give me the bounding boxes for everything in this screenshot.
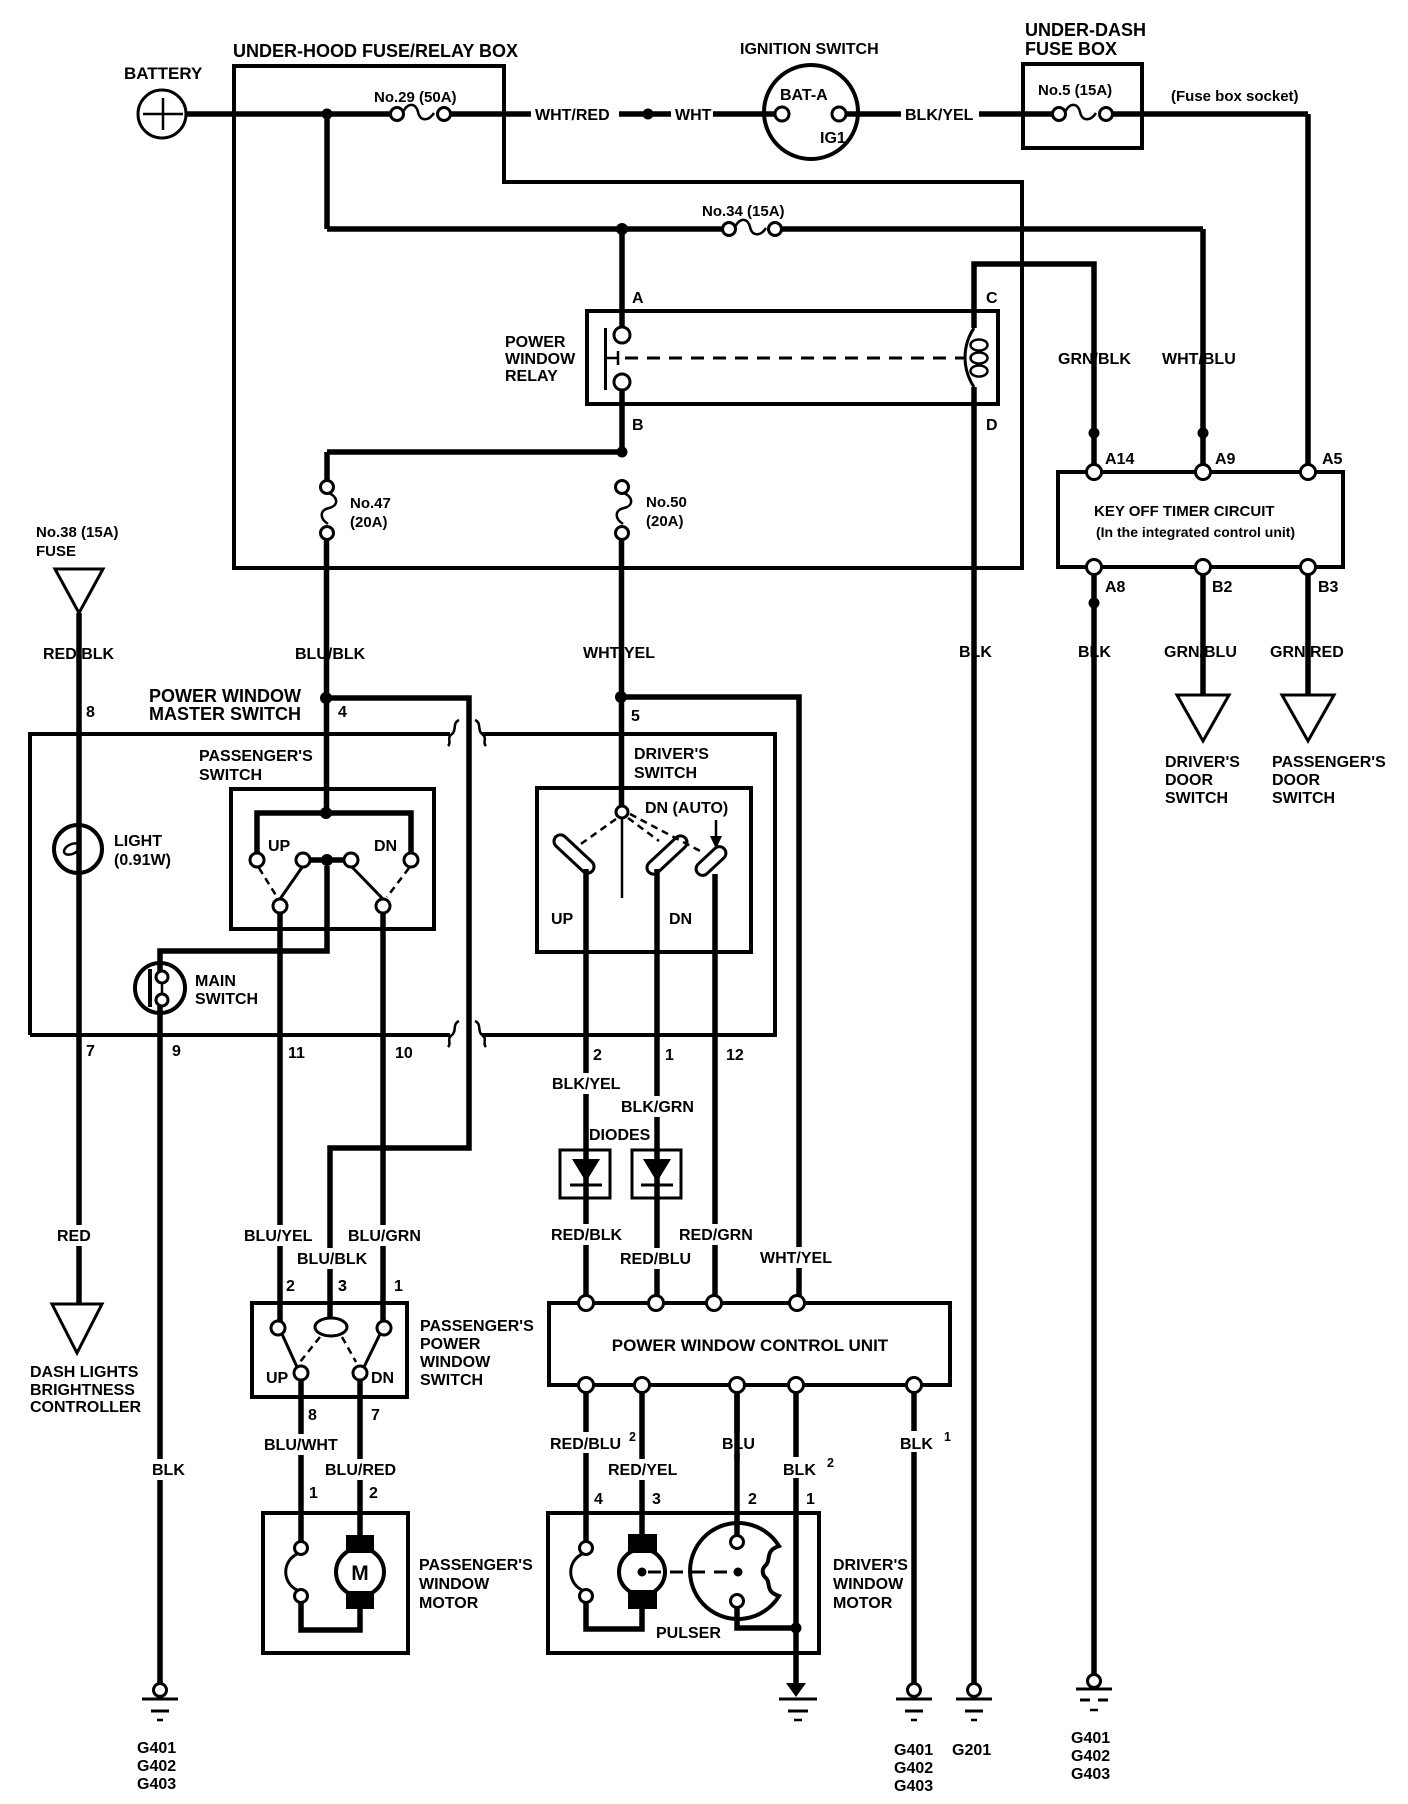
svg-text:RELAY: RELAY (505, 368, 558, 385)
svg-text:A14: A14 (1105, 451, 1134, 468)
junction relay A tap (616, 223, 628, 235)
wire WHT/YEL fuse No.50 to pin 5 and driver's switch (581, 540, 663, 807)
svg-text:IG1: IG1 (820, 130, 846, 147)
wire pin 7 BLU/RED to motor pin 2 (323, 1380, 399, 1535)
svg-text:No.29 (50A): No.29 (50A) (374, 89, 457, 106)
svg-text:B: B (632, 417, 644, 434)
svg-text:SWITCH: SWITCH (634, 765, 697, 782)
fuse No.38 (15A) (36, 524, 119, 613)
wire A8 BLK to ground (1076, 575, 1114, 1674)
svg-text:WINDOW: WINDOW (505, 351, 576, 368)
svg-text:DRIVER'S: DRIVER'S (634, 746, 709, 763)
ground driver's window motor (779, 1683, 817, 1720)
passenger's switch blades (259, 866, 409, 899)
wire pin 4 branch to passenger's power window switch pin 3 (295, 698, 469, 1318)
svg-text:DN: DN (371, 1370, 394, 1387)
wire pin 5 branch WHT/YEL to control unit (621, 697, 838, 1296)
motor-pulser shaft dashed (648, 1571, 733, 1574)
svg-text:WHT/YEL: WHT/YEL (760, 1250, 832, 1267)
wire BLU/BLK fuse No.47 to pin 4 and passenger's switch (293, 540, 366, 813)
svg-text:RED/BLU: RED/BLU (620, 1251, 691, 1268)
wire No.34 to WHT/BLU (781, 226, 1203, 232)
svg-text:DASH LIGHTS: DASH LIGHTS (30, 1364, 139, 1381)
passenger's switch center terminals (296, 853, 358, 867)
svg-text:SWITCH: SWITCH (1165, 790, 1228, 807)
svg-text:UP: UP (266, 1370, 289, 1387)
wire BLK 2 to pulser pin 1 (781, 1393, 834, 1683)
svg-text:DOOR: DOOR (1272, 772, 1320, 789)
passenger's switch DN terminal (374, 838, 418, 867)
svg-text:PASSENGER'S: PASSENGER'S (420, 1318, 534, 1335)
svg-text:1: 1 (394, 1278, 403, 1295)
svg-text:BLU/RED: BLU/RED (325, 1462, 396, 1479)
driver's window motor box (548, 1513, 908, 1653)
wire B3 GRN/RED (1268, 575, 1348, 695)
svg-text:MOTOR: MOTOR (833, 1595, 893, 1612)
wire pin 9 BLK to ground (150, 1006, 188, 1684)
power window control unit (549, 1296, 950, 1393)
passenger's motor return wire (301, 1603, 360, 1630)
svg-text:12: 12 (726, 1047, 744, 1064)
svg-text:DIODES: DIODES (589, 1127, 651, 1144)
svg-text:No.5 (15A): No.5 (15A) (1038, 82, 1112, 99)
svg-text:MOTOR: MOTOR (419, 1595, 479, 1612)
svg-text:11: 11 (288, 1045, 305, 1062)
svg-text:5: 5 (631, 708, 640, 725)
junction dot A8 (1089, 598, 1100, 609)
svg-text:D: D (986, 417, 998, 434)
power window master switch box (30, 686, 775, 1035)
break mark bottom-right (475, 1021, 486, 1047)
svg-text:BLU/BLK: BLU/BLK (295, 646, 366, 663)
passenger's power window switch box (252, 1303, 534, 1397)
svg-text:UP: UP (551, 911, 574, 928)
wire BLK/YEL (846, 107, 1053, 124)
svg-text:DRIVER'S: DRIVER'S (1165, 754, 1240, 771)
svg-text:UNDER-HOOD FUSE/RELAY BOX: UNDER-HOOD FUSE/RELAY BOX (233, 41, 518, 61)
passenger's switch contact bridge (257, 813, 411, 860)
svg-text:BLK: BLK (783, 1462, 816, 1479)
svg-text:No.38 (15A): No.38 (15A) (36, 524, 119, 541)
svg-text:POWER WINDOW: POWER WINDOW (149, 686, 301, 706)
svg-text:FUSE: FUSE (36, 543, 76, 560)
passenger's switch center bar (310, 857, 344, 863)
driver's switch box (537, 788, 751, 952)
junction pulser/BLK2 (791, 1623, 802, 1634)
svg-text:WHT/RED: WHT/RED (535, 107, 610, 124)
svg-text:POWER WINDOW CONTROL UNIT: POWER WINDOW CONTROL UNIT (612, 1336, 889, 1355)
passenger's switch common terminals (273, 899, 390, 913)
svg-text:BLK: BLK (152, 1462, 185, 1479)
svg-text:SWITCH: SWITCH (195, 991, 258, 1008)
key off timer circuit (1058, 465, 1343, 575)
wire RED/BLU 2 to driver's motor pin 4 (548, 1393, 636, 1542)
svg-text:UP: UP (268, 838, 291, 855)
passenger's door switch (1272, 695, 1386, 807)
svg-text:10: 10 (395, 1045, 413, 1062)
passenger's motor contact (286, 1542, 308, 1603)
svg-text:No.34 (15A): No.34 (15A) (702, 203, 785, 220)
driver's switch pivot (616, 806, 628, 898)
wire pin 2 BLK/YEL to diode (549, 869, 623, 1296)
svg-text:G401: G401 (137, 1740, 176, 1757)
wire light to pin 7 / dash lights controller (55, 875, 97, 1304)
svg-text:A8: A8 (1105, 579, 1126, 596)
svg-text:G403: G403 (137, 1776, 176, 1793)
wire fuse box socket to A5 (1171, 88, 1308, 465)
wire No.34 feed (327, 226, 723, 232)
svg-text:1: 1 (806, 1491, 815, 1508)
driver's motor return wire (586, 1603, 642, 1629)
wire pin 11 BLU/YEL (242, 913, 314, 1321)
ground G401 G402 G403 (BLK 1) (894, 1684, 933, 1796)
diode 1 (560, 1150, 610, 1198)
svg-text:1: 1 (665, 1047, 674, 1064)
svg-text:BLU/BLK: BLU/BLK (297, 1251, 368, 1268)
junction dot WHT/BLU (1198, 428, 1209, 439)
svg-text:G403: G403 (1071, 1766, 1110, 1783)
passenger's switch box (231, 789, 434, 929)
svg-text:G402: G402 (137, 1758, 176, 1775)
svg-text:BLU/GRN: BLU/GRN (348, 1228, 421, 1245)
svg-text:9: 9 (172, 1043, 181, 1060)
svg-text:4: 4 (594, 1491, 603, 1508)
svg-text:(0.91W): (0.91W) (114, 852, 171, 869)
svg-text:(Fuse box socket): (Fuse box socket) (1171, 88, 1299, 105)
driver's switch UP paddle (551, 832, 596, 876)
wire RED/YEL to driver's motor pin 3 (606, 1393, 684, 1535)
wire to relay A (619, 229, 625, 328)
svg-text:SWITCH: SWITCH (1272, 790, 1335, 807)
svg-text:2: 2 (629, 1430, 636, 1444)
wire RED/BLK fuse No.38 to light (41, 613, 121, 875)
svg-text:DRIVER'S: DRIVER'S (833, 1557, 908, 1574)
svg-text:(20A): (20A) (646, 513, 684, 530)
relay terminal B (614, 374, 644, 434)
svg-text:WHT/BLU: WHT/BLU (1162, 351, 1236, 368)
fuse No.50 (20A) (616, 481, 687, 540)
relay coil (965, 328, 987, 387)
svg-text:BRIGHTNESS: BRIGHTNESS (30, 1382, 135, 1399)
wire pin 8 BLU/WHT to motor pin 1 (262, 1380, 342, 1542)
passenger's window motor box (263, 1513, 533, 1653)
svg-text:G403: G403 (894, 1778, 933, 1795)
driver's switch DN paddle (644, 833, 689, 877)
driver's switch DN AUTO paddle (693, 844, 728, 878)
svg-text:7: 7 (86, 1043, 95, 1060)
wire B2 GRN/BLU (1162, 575, 1240, 695)
svg-text:PULSER: PULSER (656, 1625, 721, 1642)
under-hood fuse/relay box (233, 41, 1022, 568)
junction relay B branch (617, 447, 628, 458)
wire pin 12 RED/GRN (677, 874, 757, 1296)
under-dash fuse box (1023, 20, 1146, 148)
wire pin 10 BLU/GRN (346, 913, 424, 1321)
svg-text:M: M (351, 1562, 369, 1585)
relay dashed link (625, 357, 964, 360)
DN (AUTO) label and arrow (645, 800, 728, 849)
junction battery branch (322, 109, 333, 120)
svg-text:8: 8 (308, 1407, 317, 1424)
wire battery to fuse No.29 (186, 111, 395, 117)
svg-text:DN (AUTO): DN (AUTO) (645, 800, 728, 817)
ground G201 (relay D BLK) (952, 1684, 992, 1760)
svg-text:KEY OFF TIMER CIRCUIT: KEY OFF TIMER CIRCUIT (1094, 503, 1275, 520)
svg-text:3: 3 (338, 1278, 347, 1295)
svg-text:BLK/GRN: BLK/GRN (621, 1099, 694, 1116)
svg-text:A: A (632, 290, 644, 307)
relay terminal A (614, 290, 644, 343)
svg-text:No.47: No.47 (350, 495, 391, 512)
svg-text:2: 2 (827, 1456, 834, 1470)
svg-text:POWER: POWER (505, 334, 566, 351)
junction dot WHT/RED-WHT (643, 109, 654, 120)
svg-text:2: 2 (748, 1491, 757, 1508)
wire BLK 1 to ground (898, 1393, 951, 1684)
junction dot GRN/BLK (1089, 428, 1100, 439)
svg-text:WINDOW: WINDOW (419, 1576, 490, 1593)
svg-text:G201: G201 (952, 1742, 991, 1759)
svg-text:DOOR: DOOR (1165, 772, 1213, 789)
wire BLU to pulser pin 2 (720, 1393, 757, 1508)
svg-text:BLU/YEL: BLU/YEL (244, 1228, 313, 1245)
svg-text:4: 4 (338, 704, 347, 721)
driver's motor M (619, 1534, 665, 1609)
svg-text:BLU/WHT: BLU/WHT (264, 1437, 338, 1454)
svg-text:A5: A5 (1322, 451, 1343, 468)
svg-text:A9: A9 (1215, 451, 1236, 468)
wire to main switch (160, 866, 327, 973)
pin 5 junction (615, 691, 640, 725)
battery (124, 64, 203, 138)
svg-text:B2: B2 (1212, 579, 1233, 596)
wire battery branch down to No.34 (324, 114, 330, 229)
svg-text:RED/BLU: RED/BLU (550, 1436, 621, 1453)
svg-text:BLK/YEL: BLK/YEL (905, 107, 974, 124)
wire WHT (675, 107, 774, 124)
svg-text:POWER: POWER (420, 1336, 481, 1353)
svg-text:BAT-A: BAT-A (780, 87, 828, 104)
svg-text:BLK/YEL: BLK/YEL (552, 1076, 621, 1093)
svg-text:PASSENGER'S: PASSENGER'S (1272, 754, 1386, 771)
light (0.91W) (54, 825, 171, 873)
svg-text:BLK: BLK (900, 1436, 933, 1453)
svg-text:UNDER-DASH: UNDER-DASH (1025, 20, 1146, 40)
svg-text:LIGHT: LIGHT (114, 833, 162, 850)
pulser (648, 1393, 779, 1642)
svg-text:3: 3 (652, 1491, 661, 1508)
svg-text:RED/BLK: RED/BLK (551, 1227, 623, 1244)
svg-text:G402: G402 (894, 1760, 933, 1777)
svg-text:DN: DN (374, 838, 397, 855)
svg-text:G401: G401 (1071, 1730, 1110, 1747)
ignition switch (740, 41, 879, 159)
ground G401 G402 G403 (key off timer A8) (1071, 1675, 1112, 1784)
svg-text:RED: RED (57, 1228, 91, 1245)
svg-text:(In the integrated control uni: (In the integrated control unit) (1096, 524, 1295, 540)
break mark bottom-left (448, 1021, 459, 1047)
driver's motor contact (571, 1542, 593, 1603)
svg-text:RED/GRN: RED/GRN (679, 1227, 753, 1244)
wire relay B to fuse row (327, 390, 622, 487)
svg-text:2: 2 (593, 1047, 602, 1064)
svg-text:8: 8 (86, 704, 95, 721)
svg-text:1: 1 (944, 1430, 951, 1444)
svg-text:PASSENGER'S: PASSENGER'S (199, 748, 313, 765)
svg-text:2: 2 (369, 1485, 378, 1502)
svg-text:WINDOW: WINDOW (420, 1354, 491, 1371)
wire WHT/RED (535, 107, 671, 124)
svg-text:SWITCH: SWITCH (199, 767, 262, 784)
svg-text:RED/YEL: RED/YEL (608, 1462, 678, 1479)
fuse No.34 (15A) (702, 203, 785, 236)
fuse No.47 (20A) (321, 481, 391, 540)
svg-text:IGNITION SWITCH: IGNITION SWITCH (740, 41, 879, 58)
svg-text:2: 2 (286, 1278, 295, 1295)
svg-text:WHT: WHT (675, 107, 712, 124)
wire relay D BLK to G201 (959, 387, 997, 1684)
svg-text:DN: DN (669, 911, 692, 928)
pin 4 junction (320, 692, 347, 721)
svg-text:FUSE BOX: FUSE BOX (1025, 39, 1117, 59)
svg-text:No.50: No.50 (646, 494, 687, 511)
svg-text:BATTERY: BATTERY (124, 64, 203, 83)
svg-text:C: C (986, 290, 998, 307)
svg-text:1: 1 (309, 1485, 318, 1502)
svg-text:SWITCH: SWITCH (420, 1372, 483, 1389)
dash lights brightness controller (30, 1304, 142, 1416)
svg-text:WINDOW: WINDOW (833, 1576, 904, 1593)
svg-text:G402: G402 (1071, 1748, 1110, 1765)
svg-text:CONTROLLER: CONTROLLER (30, 1399, 142, 1416)
passenger's switch UP terminal (250, 838, 291, 867)
svg-text:G401: G401 (894, 1742, 933, 1759)
svg-text:B3: B3 (1318, 579, 1339, 596)
wire pin 1 BLK/GRN to diode (618, 869, 695, 1296)
svg-text:(20A): (20A) (350, 514, 388, 531)
junction passenger's switch feed (320, 807, 332, 819)
wire relay C GRN/BLK to A14 (974, 264, 1136, 465)
passenger's power window switch contacts (266, 1318, 394, 1387)
pins 2 3 1 (286, 1278, 403, 1295)
svg-text:PASSENGER'S: PASSENGER'S (419, 1557, 533, 1574)
passenger's motor M (336, 1535, 384, 1609)
fuse No.5 (15A) (1038, 82, 1308, 121)
fuse No.29 (50A) (374, 89, 531, 121)
svg-text:MAIN: MAIN (195, 973, 236, 990)
driver's switch dashed rays (578, 814, 702, 852)
driver's switch label (634, 746, 709, 782)
ground G401 G402 G403 (main switch pin 9) (137, 1684, 178, 1794)
wire WHT/BLU to A9 (1160, 229, 1242, 465)
pulser return wire (737, 1607, 796, 1628)
diode 2 (632, 1150, 681, 1198)
power window relay (505, 311, 998, 404)
passenger's switch label (199, 748, 313, 784)
main switch (135, 963, 258, 1013)
svg-text:7: 7 (371, 1407, 380, 1424)
svg-text:MASTER SWITCH: MASTER SWITCH (149, 704, 301, 724)
relay contact (605, 328, 619, 390)
driver's door switch (1165, 695, 1240, 807)
break mark top-left (448, 720, 459, 746)
break mark top-right (475, 720, 486, 746)
